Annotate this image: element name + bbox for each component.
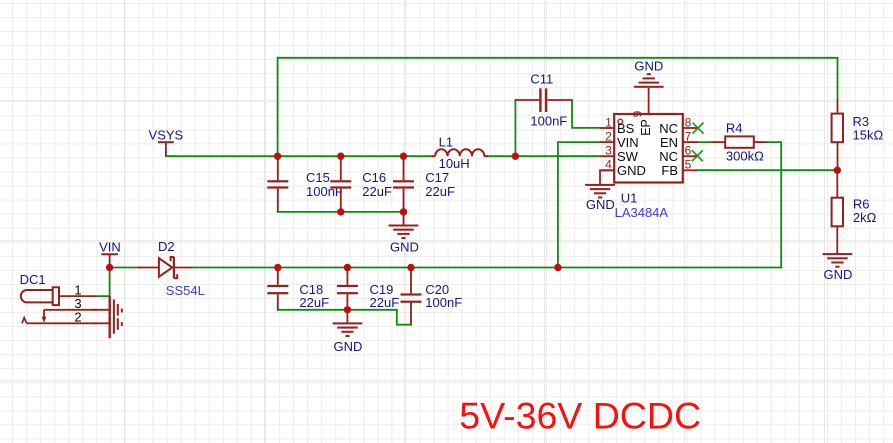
jack frame dashes (121, 309, 123, 313)
wire stub DC1 pin2 (94, 322, 97, 324)
node C16 top junction (337, 153, 344, 160)
wire top caps ground rail (278, 211, 404, 213)
ground under R6 (823, 253, 853, 282)
svg-text:BS: BS (617, 121, 635, 136)
wire top rail left vertical (277, 58, 279, 156)
svg-text:300kΩ: 300kΩ (726, 148, 764, 163)
resistor R3 (832, 99, 884, 170)
wire VSYS rail (166, 155, 432, 157)
svg-text:EN: EN (660, 135, 678, 150)
svg-text:R4: R4 (726, 121, 743, 136)
svg-text:6: 6 (685, 144, 692, 158)
node C16 bottom junction (337, 208, 344, 215)
node VIN flag junction (106, 264, 113, 271)
node U1 VIN junction (554, 264, 561, 271)
node C19 bottom junction (344, 306, 351, 313)
svg-text:2kΩ: 2kΩ (853, 210, 877, 225)
svg-text:GND: GND (586, 197, 615, 212)
capacitor C17 (393, 156, 455, 212)
svg-text:FB: FB (661, 163, 678, 178)
pin 1 stub (600, 127, 614, 129)
pin 2 stub (600, 141, 614, 143)
wire VIN rail left segment (110, 267, 139, 269)
wire SW rail after L1 (488, 155, 601, 157)
wire FB to divider (697, 169, 837, 171)
capacitor C16 (330, 156, 392, 212)
node C18 top junction (274, 264, 281, 271)
svg-text:22uF: 22uF (370, 295, 400, 310)
wire VIN to DC1 pin1 (96, 268, 110, 297)
svg-text:10uH: 10uH (439, 156, 470, 171)
svg-text:VSYS: VSYS (149, 128, 184, 143)
svg-text:3: 3 (605, 144, 612, 158)
pin 4 stub (600, 169, 614, 171)
node VSYS/top-rail junction (274, 153, 281, 160)
wire EN to R4 (697, 141, 712, 143)
diode D2 SS54L (138, 239, 205, 298)
no-connect X pin 8 (693, 123, 704, 134)
svg-text:5V-36V DCDC: 5V-36V DCDC (459, 395, 701, 437)
svg-text:LA3484A: LA3484A (615, 205, 669, 220)
pin 6 stub (683, 155, 697, 157)
node C17 top junction (400, 153, 407, 160)
node FB divider junction (834, 167, 841, 174)
svg-text:100nF: 100nF (306, 184, 343, 199)
svg-text:15kΩ: 15kΩ (853, 128, 884, 143)
svg-text:U1: U1 (621, 190, 638, 205)
svg-text:SW: SW (617, 149, 639, 164)
node C20 top junction (407, 264, 414, 271)
svg-text:100nF: 100nF (425, 295, 462, 310)
svg-text:NC: NC (659, 149, 678, 164)
sleeve hook (22, 318, 27, 324)
svg-text:1: 1 (605, 115, 612, 129)
pin 3 stub (600, 155, 614, 157)
svg-text:22uF: 22uF (299, 295, 329, 310)
wire VIN pin to bottom rail (558, 142, 600, 267)
svg-text:9: 9 (631, 110, 645, 117)
pin 3 lead (44, 309, 110, 311)
svg-text:SS54L: SS54L (166, 283, 205, 298)
svg-text:100nF: 100nF (530, 113, 567, 128)
svg-text:22uF: 22uF (425, 184, 455, 199)
ground under C19 (333, 310, 363, 354)
resistor R6 (832, 170, 877, 253)
pin 8 stub (683, 127, 697, 129)
capacitor C20 (401, 268, 463, 325)
jack frame line 2 (113, 300, 115, 334)
jack frame bar (108, 296, 110, 338)
resistor R4 (712, 121, 768, 164)
svg-text:EP: EP (639, 119, 653, 136)
svg-text:22uF: 22uF (362, 184, 392, 199)
capacitor C18 (267, 268, 329, 311)
pin 7 stub (683, 141, 697, 143)
wire C11 left vertical (514, 100, 516, 156)
wire C11 right vertical to BS (572, 100, 600, 128)
svg-text:DC1: DC1 (20, 272, 46, 287)
svg-text:GND: GND (390, 239, 419, 254)
svg-text:GND: GND (617, 163, 646, 178)
svg-text:VIN: VIN (617, 135, 639, 150)
svg-text:1: 1 (74, 282, 81, 297)
wire VIN rail main segment (193, 267, 782, 269)
svg-text:2: 2 (74, 310, 81, 325)
op-amp U1 LA3484A body (600, 110, 697, 219)
svg-text:L1: L1 (439, 134, 453, 149)
barrel tip rect (53, 287, 59, 305)
ground under C17 (389, 212, 419, 255)
svg-text:GND: GND (334, 339, 363, 354)
svg-text:8: 8 (685, 115, 692, 129)
net flag VSYS (149, 128, 184, 156)
jack frame line 3 dashed (117, 304, 119, 316)
pin 5 stub (683, 169, 697, 171)
svg-text:C11: C11 (530, 71, 553, 86)
capacitor C15 (267, 156, 343, 212)
net flag VIN (99, 240, 121, 267)
switch arrow (43, 310, 45, 318)
node C19 top junction (344, 264, 351, 271)
capacitor C11 (515, 71, 572, 128)
svg-text:5: 5 (685, 158, 692, 172)
svg-text:NC: NC (659, 121, 678, 136)
pin 1 lead (59, 295, 96, 297)
ground flag above U1 (inverted) (634, 58, 664, 114)
capacitor C19 (337, 268, 399, 311)
inductor L1 (432, 134, 488, 171)
node C17 bottom junction (400, 208, 407, 215)
svg-text:2: 2 (605, 130, 612, 144)
svg-text:VIN: VIN (99, 240, 121, 255)
svg-text:D2: D2 (158, 239, 175, 254)
NCMARKS (692, 123, 704, 162)
wire bottom caps ground rail (278, 310, 411, 325)
barrel capsule (21, 290, 53, 302)
svg-text:7: 7 (685, 130, 692, 144)
wire R4 right to VIN rail (768, 142, 782, 267)
connector DC1 (20, 272, 122, 338)
wire stub DC1 pin3 (94, 309, 97, 311)
no-connect X pin 6 (692, 150, 703, 161)
node SW/C11 junction (512, 153, 519, 160)
wire top rail right vertical to R3 (837, 58, 839, 99)
svg-text:GND: GND (634, 58, 663, 73)
ground at U1 pin 4 (585, 170, 615, 212)
pin 1 marker circle (618, 119, 623, 124)
pin 2 lead (27, 322, 110, 324)
wire top rail (278, 57, 838, 59)
svg-text:GND: GND (823, 267, 852, 282)
